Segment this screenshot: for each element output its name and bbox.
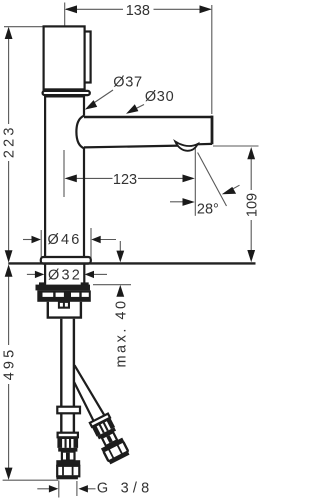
svg-text:Ø30: Ø30 — [145, 89, 175, 105]
svg-text:123: 123 — [113, 172, 137, 188]
svg-text:Ø37: Ø37 — [113, 75, 143, 91]
svg-text:G 3/8: G 3/8 — [97, 481, 153, 497]
svg-text:max. 40: max. 40 — [113, 298, 129, 367]
svg-text:Ø46: Ø46 — [47, 232, 81, 248]
svg-text:109: 109 — [244, 193, 260, 217]
svg-text:138: 138 — [126, 3, 150, 19]
svg-text:495: 495 — [2, 347, 18, 381]
svg-text:28°: 28° — [197, 201, 219, 217]
svg-text:223: 223 — [2, 124, 18, 158]
svg-text:Ø32: Ø32 — [48, 268, 82, 284]
